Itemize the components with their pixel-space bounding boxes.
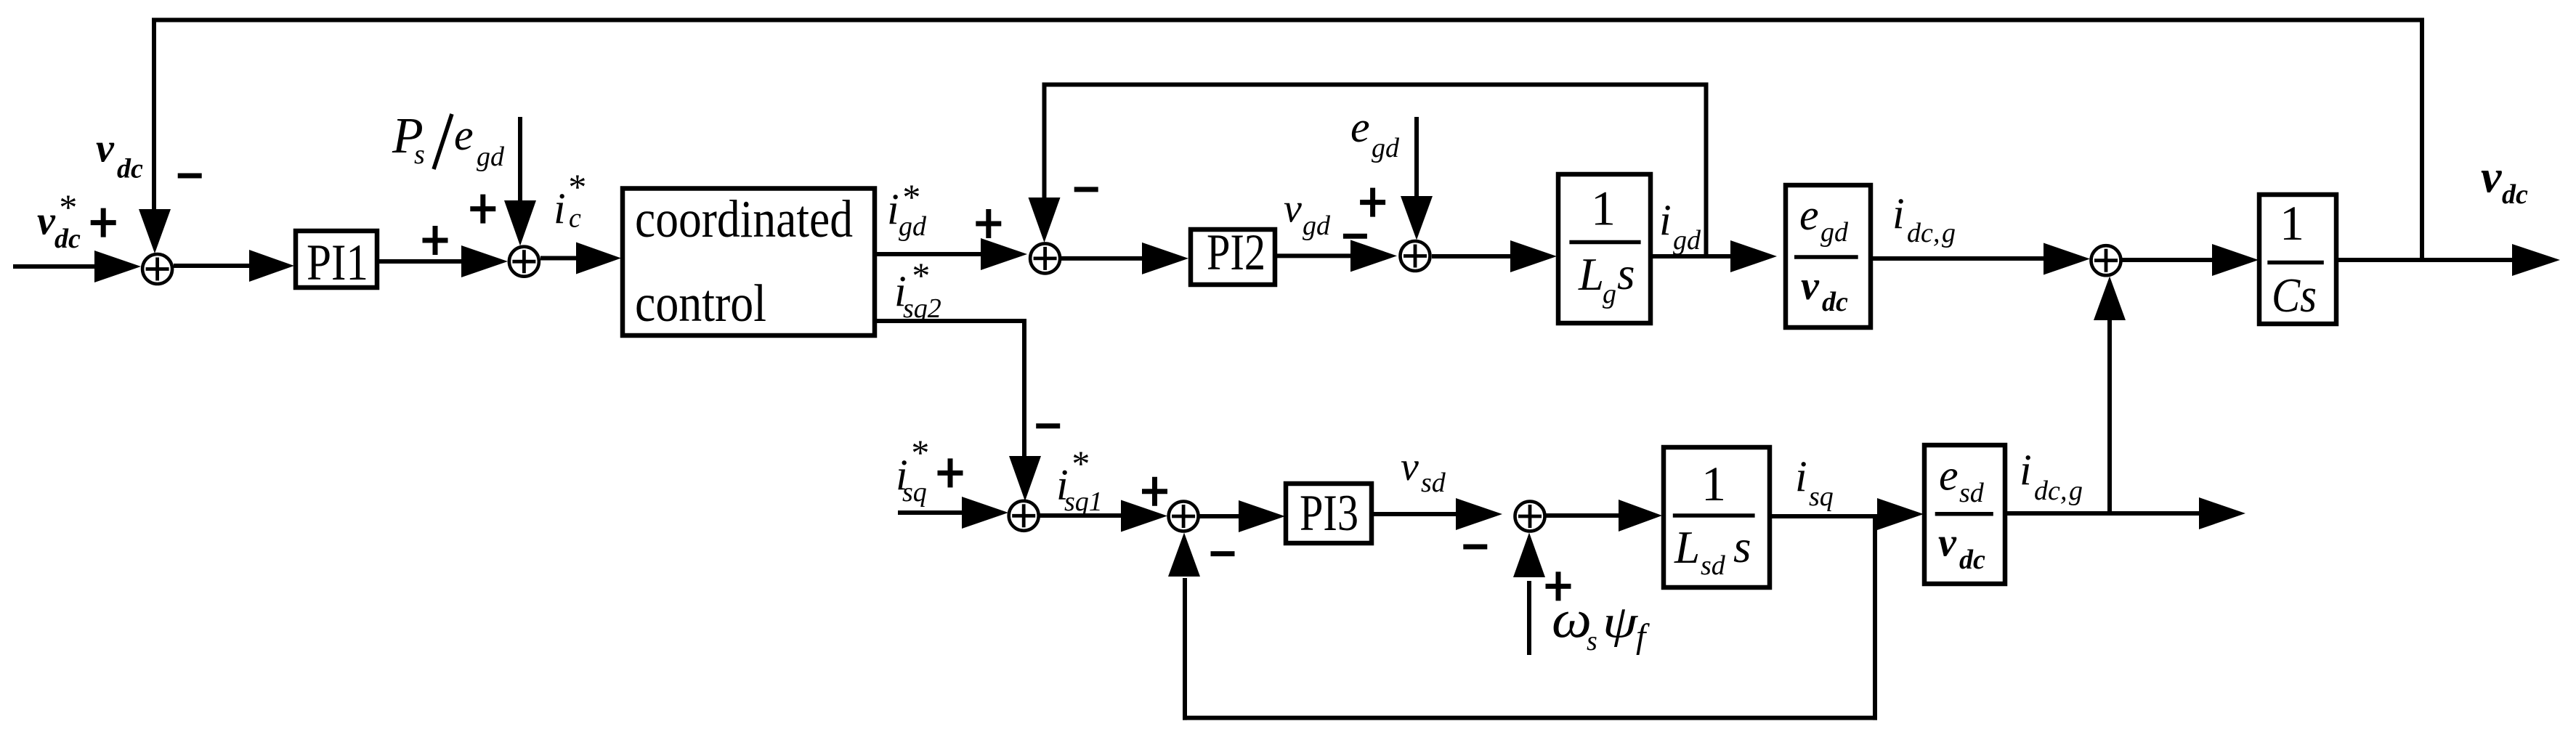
svg-text:e: e [1799, 191, 1819, 239]
svg-text:g: g [2069, 476, 2083, 506]
arrowhead into sum8 [1456, 498, 1502, 530]
wire: sum1 to PI1 [174, 264, 254, 268]
svg-text:dc: dc [54, 224, 81, 254]
arrowhead into PI1 [249, 250, 294, 282]
wire: sum8 to 1/Lsds [1544, 513, 1621, 518]
arrowhead into sum3 [981, 238, 1027, 270]
arrowhead into PI3 [1239, 500, 1285, 532]
arrowhead into sum8 (up) [1513, 533, 1545, 578]
wire: ws psi f riser into sum8 [1527, 581, 1531, 655]
wire: isq feedback right riser [1873, 516, 1877, 720]
svg-text:*: * [910, 432, 928, 473]
block egd/vdc [1786, 185, 1871, 327]
svg-text:PI2: PI2 [1207, 224, 1265, 281]
minus sign right of sum7 riser [1211, 551, 1235, 556]
wire: sum7 to PI3 [1199, 514, 1242, 518]
svg-text:sq2: sq2 [903, 293, 941, 324]
arrowhead bottom output [2199, 497, 2245, 529]
arrowhead into 1/Lsds [1619, 500, 1662, 532]
plus sign left of Ps/egd arrow [470, 195, 495, 224]
fraction bar of esd/vdc [1935, 512, 1993, 516]
svg-text:e: e [1350, 103, 1370, 151]
wire: 1/Lgs to egd/vdc block [1650, 254, 1732, 258]
plus sign above igd* wire [976, 209, 1001, 238]
svg-text:c: c [569, 203, 581, 234]
wire: riser from bottom row into sum5 [2107, 317, 2112, 513]
svg-text:,: , [2060, 476, 2067, 506]
svg-text:v: v [37, 198, 56, 243]
wire: sum2 to coordinated control [540, 256, 581, 261]
wire: PI2 to sum4 [1275, 253, 1353, 258]
svg-text:PI1: PI1 [307, 235, 368, 291]
fraction bar of 1/Lgs [1569, 240, 1640, 245]
block 1/Cs [2259, 195, 2336, 324]
arrowhead into 1/Lgs [1510, 240, 1557, 272]
svg-text:1: 1 [1591, 181, 1616, 236]
wire: isq* input [898, 510, 965, 515]
arrowhead into sum4 (down) [1401, 196, 1433, 240]
wire: esd/vdc output [2005, 511, 2203, 516]
svg-text:L: L [1674, 522, 1700, 573]
arrowhead into sum2 (down) [504, 200, 536, 246]
svg-text:v: v [2481, 151, 2502, 203]
fraction bar of egd/vdc [1794, 255, 1858, 259]
wire: input vdc* line [13, 264, 97, 269]
plus sign above PI1-sum2 wire [423, 226, 448, 255]
svg-text:gd: gd [1303, 211, 1331, 241]
fraction bar of 1/Lsds [1673, 513, 1755, 518]
minus sign at sum1 [178, 174, 202, 179]
arrowhead into PI2 [1142, 243, 1188, 274]
wire: sum6 to sum7 [1039, 513, 1122, 518]
wire: igd feedback top horizontal [1042, 83, 1709, 87]
svg-text:sq: sq [902, 477, 927, 508]
arrowhead into sum7 (up) [1168, 533, 1200, 577]
wire: PI3 to sum8 [1372, 512, 1457, 516]
svg-text:Cs: Cs [2272, 269, 2317, 322]
block esd/vdc [1924, 445, 2005, 584]
svg-text:gd: gd [1820, 217, 1849, 248]
arrowhead into sum5 [2044, 243, 2090, 275]
plus sign before sum7 [1142, 477, 1167, 506]
minus sign right of sum3 drop [1074, 187, 1098, 192]
minus sign before sum8 [1463, 545, 1487, 550]
svg-text:g: g [1942, 218, 1956, 248]
plus sign at sum1 input [91, 208, 116, 237]
block PI2 [1191, 229, 1275, 285]
svg-text:i: i [887, 185, 899, 233]
wire: igd feedback riser [1704, 83, 1709, 257]
wire: Ps/egd drop into sum2 [518, 117, 522, 206]
wire: top vdc feedback horizontal [152, 18, 2424, 23]
wire: PI1 to sum2 [377, 259, 465, 264]
svg-text:*: * [1070, 443, 1088, 484]
plus sign above sum4 [1360, 188, 1385, 217]
arrowhead into sum6 [962, 497, 1008, 529]
svg-text:1: 1 [2280, 195, 2304, 251]
wire: egd drop into sum4 [1414, 117, 1419, 202]
wire: 1/Lsds to esd/vdc [1770, 514, 1879, 518]
block 1/Lgs [1558, 174, 1650, 323]
wire: 1/Cs to output [2336, 258, 2515, 262]
svg-text:s: s [1733, 521, 1751, 572]
svg-text:s: s [414, 139, 425, 170]
svg-text:s: s [1587, 626, 1597, 656]
block PI1 [296, 231, 377, 288]
svg-text:*: * [57, 187, 76, 227]
svg-text:gd: gd [899, 211, 927, 242]
svg-text:dc: dc [1822, 287, 1848, 317]
svg-text:sq: sq [1809, 481, 1834, 512]
summing junction sum1 [142, 254, 172, 284]
wire: isq feedback riser into sum7 [1183, 578, 1187, 720]
arrowhead into esd/vdc [1877, 498, 1924, 530]
wire: igd* output of coordinated control [875, 252, 984, 256]
svg-text:*: * [567, 166, 585, 207]
svg-text:L: L [1578, 249, 1604, 300]
wire: isq2* drop [1022, 321, 1026, 460]
svg-text:PI3: PI3 [1300, 485, 1358, 542]
svg-text:,: , [1933, 218, 1940, 248]
arrowhead into sum4 [1350, 240, 1397, 272]
svg-text:coordinated: coordinated [635, 190, 853, 248]
block PI3 [1286, 484, 1372, 543]
arrowhead output vdc [2512, 244, 2560, 276]
svg-text:e: e [454, 111, 474, 159]
summing junction sum3 [1030, 243, 1060, 273]
wire: igd feedback drop into sum3 [1042, 83, 1047, 203]
svg-text:gd: gd [477, 142, 505, 172]
svg-text:control: control [635, 274, 766, 333]
wire: sum4 to 1/Lgs block [1432, 254, 1512, 258]
svg-text:ψ: ψ [1603, 595, 1639, 647]
arrowhead into sum1 (down) [139, 209, 171, 253]
svg-text:g: g [1603, 279, 1616, 309]
svg-text:sd: sd [1959, 478, 1985, 508]
svg-text:1: 1 [1701, 456, 1726, 511]
svg-text:v: v [96, 126, 115, 171]
svg-text:i: i [1795, 452, 1807, 500]
wire: top feedback left drop to sum1 [152, 18, 156, 216]
svg-text:v: v [1938, 521, 1957, 566]
wire: sum3 to PI2 [1060, 256, 1144, 261]
summing junction sum7 [1169, 502, 1199, 532]
arrowhead into coordinated control [576, 243, 621, 274]
svg-text:dc: dc [2034, 476, 2060, 506]
svg-text:dc: dc [117, 154, 143, 184]
wire: sum5 to 1/Cs [2122, 258, 2217, 262]
svg-text:dc: dc [1907, 218, 1933, 248]
svg-text:v: v [1284, 186, 1302, 231]
svg-text:i: i [1659, 196, 1672, 244]
minus sign right of isq2* drop [1036, 423, 1060, 428]
minus sign before sum4 [1343, 234, 1367, 239]
arrowhead into sum7 [1121, 500, 1167, 532]
svg-text:dc: dc [2502, 179, 2528, 210]
plus sign right of sum8 riser [1546, 571, 1571, 601]
svg-text:v: v [1801, 264, 1820, 309]
svg-text:s: s [1617, 248, 1635, 299]
svg-text:ω: ω [1552, 590, 1592, 649]
svg-text:e: e [1939, 452, 1959, 500]
svg-text:gd: gd [1673, 225, 1701, 256]
summing junction sum6 [1009, 501, 1039, 531]
arrowhead into sum3 (down) [1029, 198, 1061, 243]
wire: isq feedback bottom horizontal [1183, 716, 1877, 720]
svg-text:sd: sd [1701, 550, 1726, 581]
svg-text:i: i [2020, 446, 2032, 494]
svg-text:sd: sd [1421, 468, 1446, 498]
summing junction sum4 [1401, 241, 1430, 271]
summing junction sum2 [509, 247, 539, 277]
wire: isq2* horizontal from coordinated control [875, 319, 1026, 323]
block 1/Lsds [1664, 447, 1770, 587]
block coordinated control [623, 189, 875, 336]
wire: egd/vdc to sum5 [1871, 256, 2047, 261]
arrowhead into sum1 (right) [94, 251, 141, 282]
arrowhead into egd/vdc [1730, 240, 1777, 272]
summing junction sum8 [1515, 502, 1545, 532]
svg-text:*: * [910, 255, 928, 296]
arrowhead into sum6 (down) [1009, 456, 1041, 501]
summing junction sum5 [2091, 245, 2121, 275]
svg-text:gd: gd [1372, 133, 1400, 163]
svg-text:sq1: sq1 [1064, 487, 1103, 517]
plus sign isq* input [938, 458, 963, 487]
arrowhead into sum5 (up) [2094, 277, 2126, 321]
svg-text:i: i [554, 184, 566, 232]
svg-text:i: i [1892, 190, 1905, 237]
svg-text:v: v [1401, 444, 1419, 489]
arrowhead into sum2 [461, 245, 508, 277]
wire: top feedback right drop to output line [2420, 18, 2424, 261]
svg-text:dc: dc [1959, 545, 1985, 575]
fraction bar of 1/Cs [2267, 261, 2324, 265]
arrowhead into 1/Cs [2212, 244, 2259, 276]
